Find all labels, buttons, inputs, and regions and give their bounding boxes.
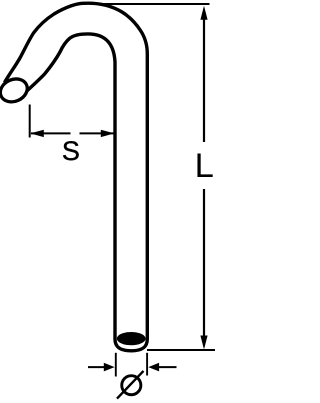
diameter dimension — [115, 353, 117, 377]
open end ellipse — [0, 75, 31, 106]
bottom end face — [117, 332, 146, 345]
svg-text:L: L — [195, 147, 214, 185]
S dimension — [29, 105, 31, 138]
svg-text:S: S — [62, 136, 80, 166]
L dimension — [95, 3, 210, 5]
diameter symbol — [122, 376, 141, 395]
hook body outline — [5, 3, 148, 351]
